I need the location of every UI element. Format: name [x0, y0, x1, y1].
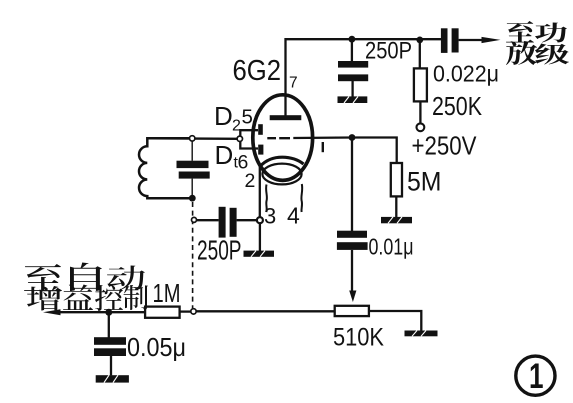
svg-text:4: 4 [287, 203, 300, 229]
ground bar at pot right [405, 331, 438, 337]
ring node after 1M [191, 309, 196, 314]
wiper arrow of potentiometer [349, 291, 356, 303]
output arrow to power amp [482, 37, 501, 43]
resistor 5M (grid leak) [391, 163, 402, 196]
ring node coil top [190, 136, 195, 141]
cathode arc [260, 157, 304, 166]
wire pot right end to ground [369, 311, 421, 331]
heater lead pin 3 [265, 185, 268, 213]
cathode lead pin 2 down to node [259, 165, 261, 218]
svg-text:5M: 5M [407, 167, 442, 197]
capacitor 0.05u lead [108, 312, 110, 337]
capacitor C 0.022u (coupling to output) [441, 28, 459, 53]
capacitor 250P (bottom) leads and plates [197, 207, 258, 238]
junction node on top wire above 250P [349, 36, 356, 43]
ground bar below cathode node [244, 251, 275, 257]
svg-text:D: D [215, 140, 234, 170]
terminal circle +250V [417, 123, 425, 131]
ring node on dashed line at 250P [192, 217, 197, 222]
plate (anode) bar [270, 115, 302, 120]
svg-text:510K: 510K [333, 324, 384, 352]
lead 0.05u to ground [110, 356, 112, 375]
capacitor 0.05u plates [94, 337, 126, 356]
svg-text:1: 1 [529, 357, 544, 396]
svg-text:0.022μ: 0.022μ [433, 61, 499, 87]
potentiometer 510K body [335, 306, 369, 316]
ground bar below 0.05u [96, 375, 129, 382]
ground bar below 250P [338, 96, 368, 103]
svg-text:0.05μ: 0.05μ [127, 332, 186, 362]
pin 1 label (bar) [322, 142, 324, 152]
wire capacitor to output arrow [459, 39, 482, 41]
lead 0.01u down to pot wiper [351, 250, 353, 292]
text: to power amplifier stage (zhi gong / fang ji) [506, 21, 569, 65]
lead 5M to ground [395, 196, 397, 217]
svg-text:7: 7 [289, 75, 298, 92]
svg-text:1M: 1M [153, 278, 181, 308]
grid (dashed) pin 1 [267, 136, 352, 139]
svg-text:250P: 250P [365, 38, 412, 65]
junction node on top wire above 250K [416, 37, 423, 44]
wire from 1M node to pot left end [196, 310, 335, 312]
dashed line from coil bottom to 1M node [192, 202, 194, 308]
capacitor 0.01u lead from grid node [351, 138, 353, 232]
capacitor 250P (plate bypass): leads and plates [338, 39, 368, 97]
wire plate lead and top plate wire [286, 39, 442, 116]
junction node on AGC wire [105, 309, 112, 316]
tube 6G2 envelope [253, 95, 313, 181]
svg-text:+250V: +250V [412, 131, 478, 161]
wire cathode node to ground [259, 223, 261, 251]
trimmer capacitor plates [177, 161, 210, 179]
coil (IF transformer secondary) [139, 138, 190, 198]
diode plate pin 5 [258, 124, 263, 135]
heater lead pin 4 [300, 184, 303, 212]
ground bar below 5M [381, 217, 412, 223]
AGC wire with left arrow [58, 311, 145, 313]
svg-text:2: 2 [232, 118, 241, 135]
svg-text:0.01μ: 0.01μ [369, 234, 414, 260]
junction dot coil bottom [189, 195, 196, 202]
resistor 1M [145, 307, 180, 318]
junction node on grid line [349, 134, 356, 141]
svg-text:D: D [214, 101, 233, 131]
text: to AGC (zhi zi dong / zeng yi kong zhi) [24, 263, 145, 292]
diode bracket to pins 5 and 6 [240, 130, 258, 148]
trimmer capacitor bottom lead [191, 179, 193, 196]
stem ellipse (heater region) [262, 164, 301, 185]
wire from coil to diode node [149, 137, 238, 140]
node ring at diode tie point [237, 136, 242, 141]
wire grid node to 5M [352, 138, 397, 164]
trimmer capacitor across coil: top lead [191, 141, 193, 161]
diode plate pin 6 [258, 145, 263, 155]
wire 1M to ring node [180, 310, 192, 312]
ring node cathode tie point [257, 217, 263, 223]
resistor 250K (plate load) [414, 40, 427, 124]
svg-text:2: 2 [245, 170, 256, 192]
svg-text:250P: 250P [197, 235, 242, 266]
svg-text:5: 5 [242, 106, 253, 129]
svg-text:250K: 250K [432, 91, 483, 121]
circled figure number 1 [516, 356, 555, 395]
svg-text:3: 3 [264, 204, 276, 229]
capacitor 0.01u plates [337, 231, 368, 250]
svg-text:6G2: 6G2 [233, 55, 282, 87]
